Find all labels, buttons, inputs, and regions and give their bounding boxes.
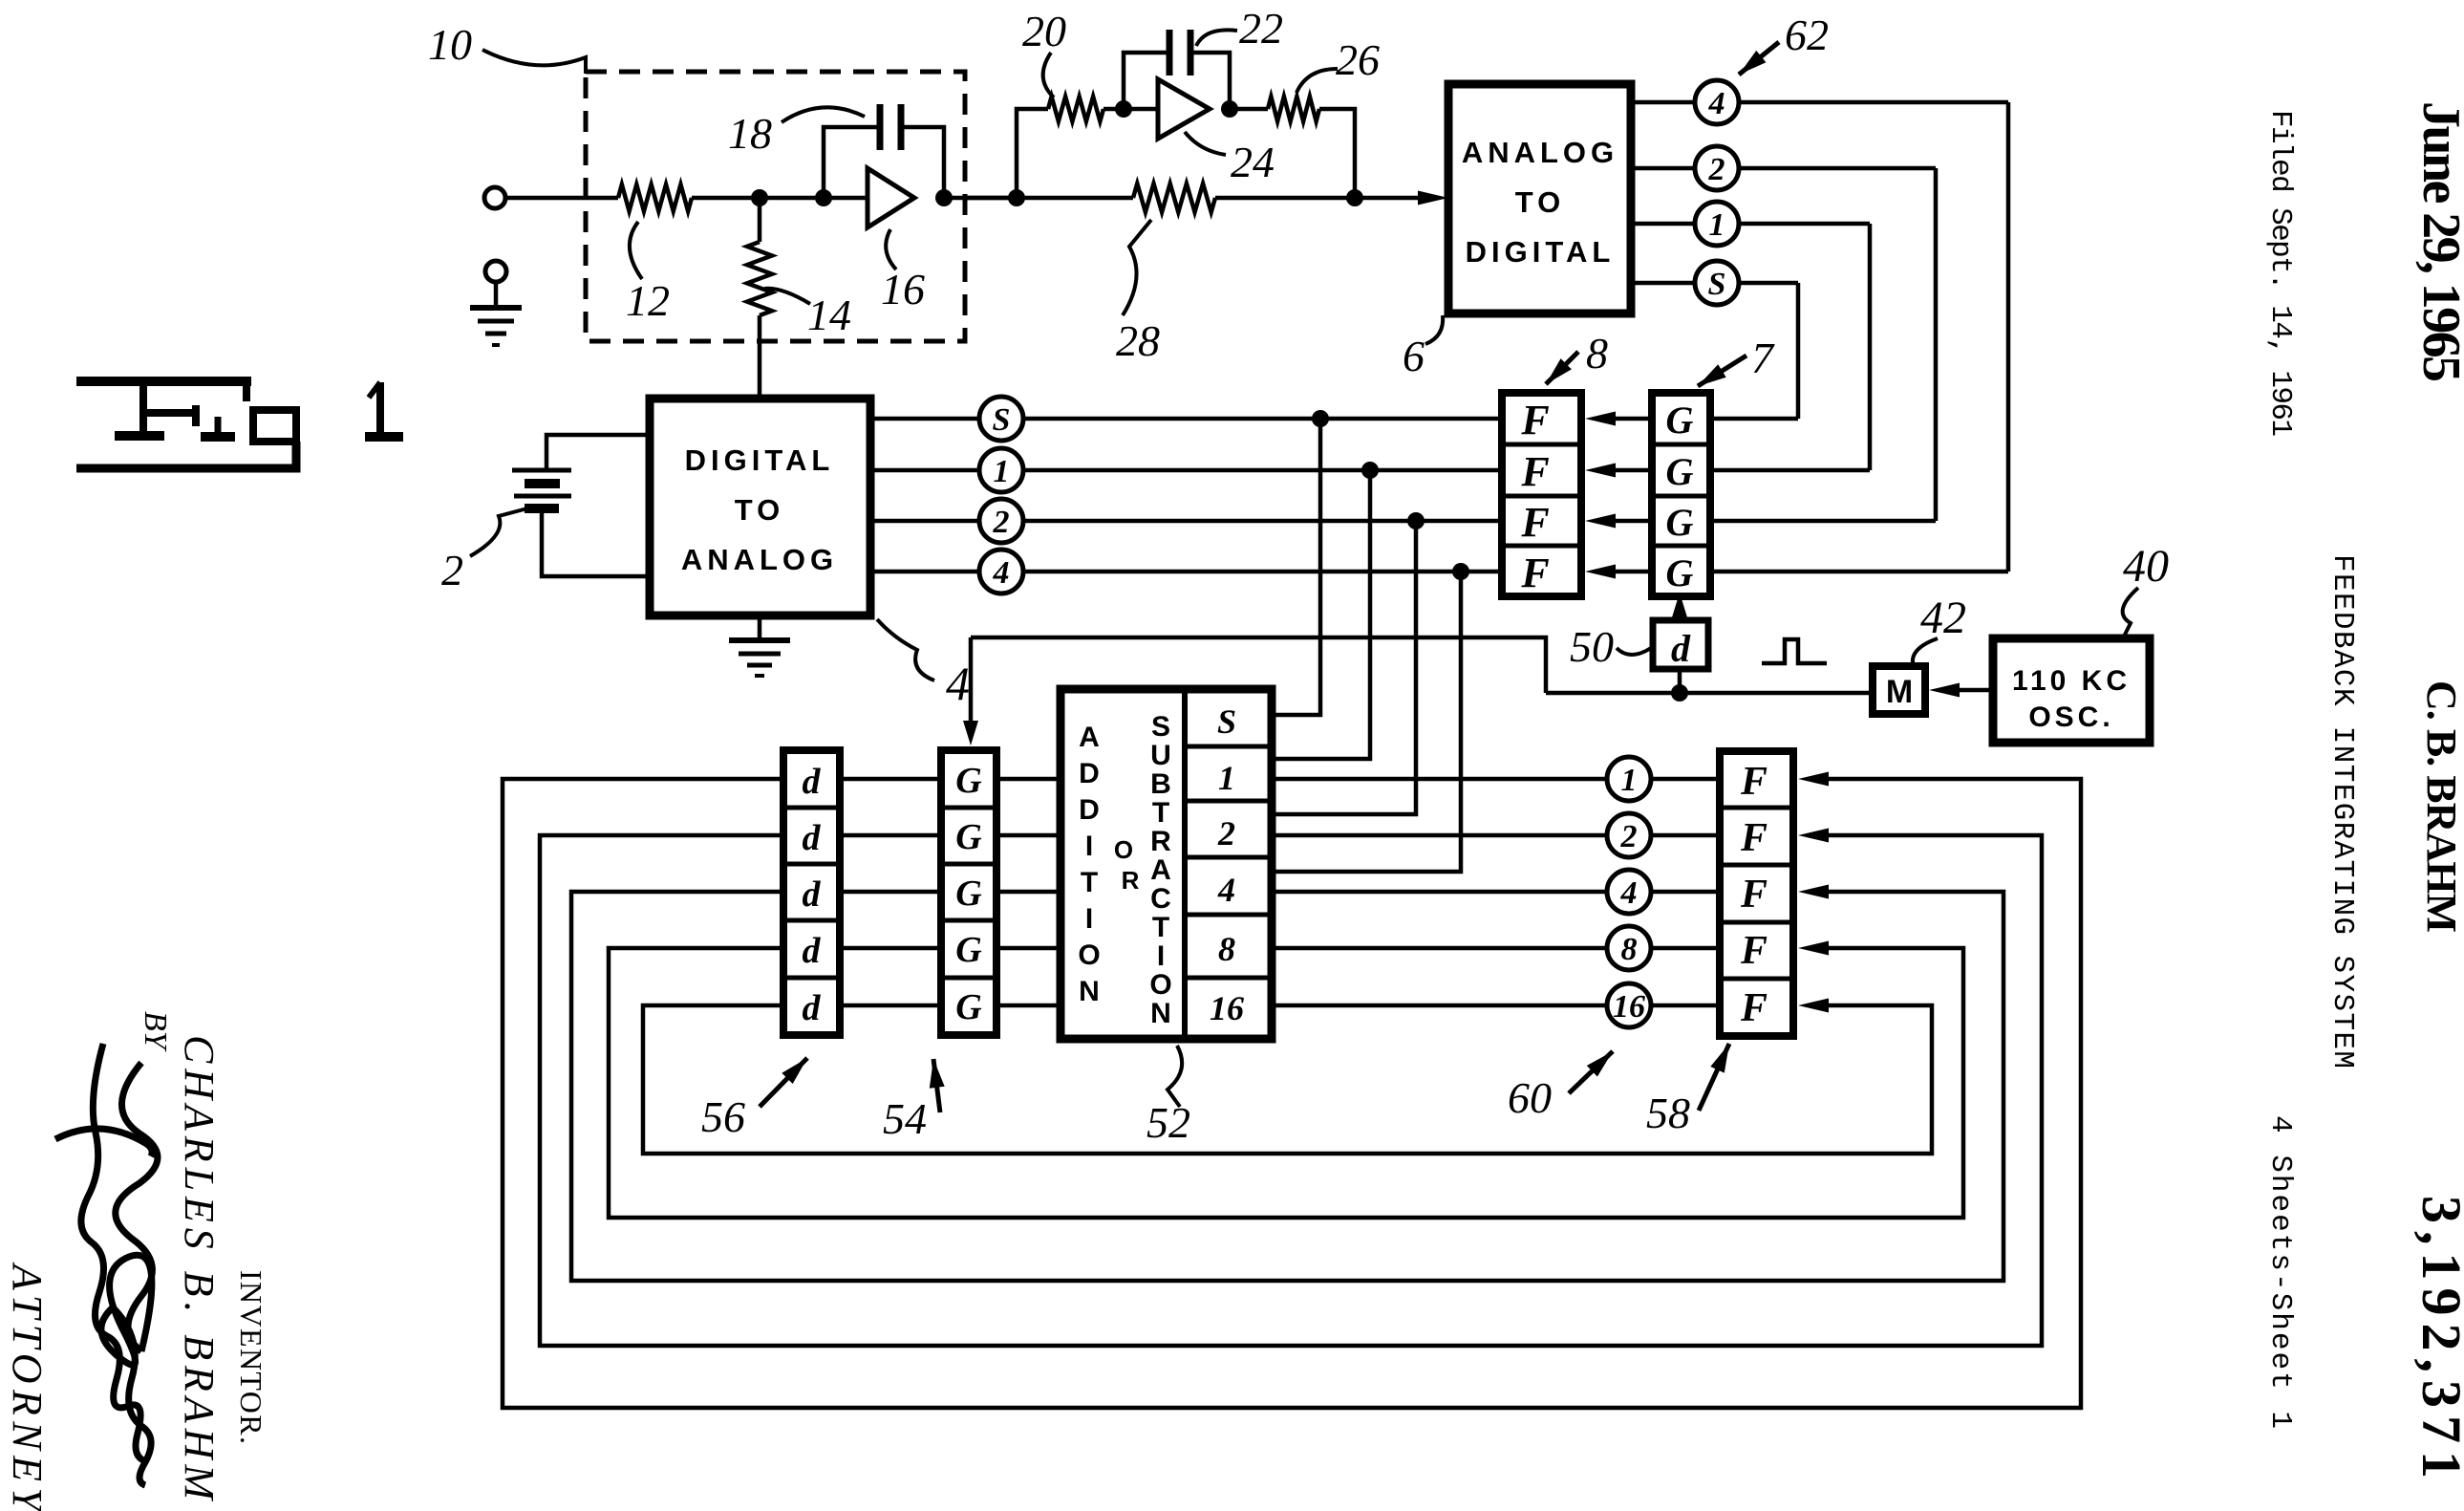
text G — [1666, 399, 1694, 442]
svg-text:ANALOG: ANALOG — [1462, 136, 1618, 169]
wire: vertical S to G column — [1796, 283, 1801, 419]
feedback loop 4 — [609, 941, 1963, 1219]
wire: ADC output 2 — [1631, 166, 1936, 171]
text d — [803, 931, 822, 971]
text F — [1740, 760, 1768, 804]
label 4 — [877, 619, 970, 710]
label 12 — [626, 222, 670, 325]
text F — [1520, 397, 1549, 443]
svg-text:R: R — [1150, 826, 1171, 857]
header filed — [2263, 110, 2297, 437]
text F — [1740, 986, 1768, 1030]
capacitor C22 feedback wire — [1124, 53, 1230, 109]
svg-text:28: 28 — [1116, 316, 1160, 365]
figure label Fig 1 — [76, 381, 403, 468]
text 110 KC OSC. — [2012, 665, 2131, 733]
label 24 — [1185, 132, 1275, 186]
text G — [955, 817, 982, 857]
svg-text:14: 14 — [807, 291, 851, 339]
svg-text:G: G — [955, 930, 982, 970]
label 2 — [441, 508, 527, 594]
text adder cell 1 — [1218, 759, 1235, 797]
svg-text:8: 8 — [1586, 329, 1608, 378]
block: 110 KC OSC (40) — [1993, 638, 2150, 743]
svg-text:2: 2 — [1708, 152, 1725, 187]
text T (SUBTRACTION) — [1152, 797, 1169, 829]
wire: loop to d — [840, 833, 941, 838]
label 42 — [1913, 593, 1966, 663]
label 8 with arrow — [1546, 329, 1608, 384]
wire: loop to d — [840, 946, 941, 951]
label 56 with arrow — [701, 1058, 807, 1141]
svg-text:20: 20 — [1022, 7, 1066, 55]
capacitor C18 — [880, 104, 901, 150]
resistor R20 — [1048, 97, 1103, 121]
wire: G54 to adder — [996, 1004, 1061, 1008]
label 22 — [1196, 4, 1283, 53]
text G — [1666, 551, 1694, 594]
header title — [2325, 554, 2359, 1068]
text C (SUBTRACTION) — [1150, 883, 1171, 915]
resistor R26 — [1268, 97, 1319, 121]
node circle 1 (60) — [1607, 757, 1651, 801]
wire: node D up to R20 — [1017, 109, 1048, 198]
junction dot row S — [1312, 410, 1329, 427]
svg-text:1: 1 — [1709, 207, 1725, 243]
wire: d50 to clock line — [1678, 669, 1682, 693]
flip-flop column 8 (F) — [1502, 393, 1581, 596]
wire: vertical to adder cell 1 — [1272, 470, 1370, 759]
wire: adder to F58 row 16 — [1272, 1004, 1720, 1008]
text R (SUBTRACTION) — [1150, 826, 1171, 857]
svg-text:62: 62 — [1785, 11, 1829, 59]
svg-text:4: 4 — [1217, 871, 1235, 909]
svg-text:2: 2 — [1217, 814, 1235, 853]
node D — [1008, 189, 1025, 206]
wire+arrow OSC to M — [1929, 683, 1993, 698]
svg-text:A: A — [1150, 854, 1171, 886]
label 60 with arrow — [1508, 1051, 1613, 1122]
resistor R12 — [618, 184, 692, 211]
junction dot row 4 — [1452, 563, 1469, 580]
svg-text:d: d — [803, 931, 822, 971]
svg-text:G: G — [1666, 399, 1694, 442]
wire: vertical 2 to G column — [1934, 168, 1939, 521]
label 26 — [1296, 35, 1380, 93]
svg-text:F: F — [1740, 816, 1768, 860]
wire: R20 to node E — [1103, 107, 1158, 112]
svg-text:F: F — [1740, 986, 1768, 1030]
text F — [1740, 816, 1768, 860]
text d — [803, 762, 822, 802]
header date — [2411, 101, 2464, 382]
svg-text:INVENTOR.: INVENTOR. — [234, 1270, 268, 1444]
svg-text:O: O — [1078, 939, 1100, 971]
svg-text:A: A — [1079, 722, 1100, 753]
wire: vertical 1 to G column — [1868, 224, 1873, 470]
wire: R28 to ADC — [1215, 196, 1438, 201]
svg-text:G: G — [955, 874, 982, 914]
svg-text:BY: BY — [138, 1011, 173, 1052]
svg-text:1: 1 — [1218, 759, 1235, 797]
label 6 — [1403, 315, 1443, 380]
svg-text:7: 7 — [1751, 334, 1775, 382]
text G — [955, 761, 982, 801]
feedback loop 3 — [571, 885, 2003, 1282]
node circle 2 (60) — [1607, 813, 1651, 857]
wire: DAC output S to F column — [870, 417, 1502, 421]
svg-text:d: d — [803, 988, 822, 1028]
arrow: d50 to G7 — [1672, 593, 1687, 620]
footer INVENTOR — [234, 1270, 268, 1444]
text O (ADDITION) — [1078, 939, 1100, 971]
wire: G column input row 2 — [1710, 468, 1870, 473]
svg-text:N: N — [1150, 998, 1171, 1029]
svg-text:42: 42 — [1920, 593, 1966, 643]
svg-text:2: 2 — [993, 505, 1010, 540]
svg-text:T: T — [1081, 867, 1098, 898]
text A (ADDITION) — [1079, 722, 1100, 753]
svg-text:d: d — [1671, 627, 1691, 670]
wire: adder to F58 row 1 — [1272, 777, 1720, 782]
svg-text:F: F — [1520, 550, 1549, 596]
svg-text:T: T — [1152, 912, 1169, 943]
node E — [1115, 100, 1132, 118]
wire+arrow G to F row 1 — [1585, 412, 1652, 426]
text F — [1520, 550, 1549, 596]
text I (ADDITION) — [1085, 903, 1093, 935]
dashed box 10 — [586, 72, 965, 341]
svg-text:B: B — [1150, 768, 1171, 800]
label 62 with arrow — [1739, 11, 1829, 75]
text adder cell 2 — [1217, 814, 1235, 853]
header sheet — [2263, 1115, 2297, 1429]
battery 2 — [512, 470, 571, 508]
svg-text:D: D — [1079, 758, 1100, 789]
svg-text:4: 4 — [1620, 875, 1638, 911]
svg-text:G: G — [1666, 450, 1694, 493]
wire: DAC output 4 to F column — [870, 570, 1502, 574]
wire: R14 to DAC — [758, 315, 762, 399]
text T (ADDITION) — [1081, 867, 1098, 898]
capacitor C22 — [1169, 30, 1190, 76]
text G — [1666, 501, 1694, 544]
feedback loop 2 — [540, 829, 2042, 1347]
svg-text:O: O — [1114, 835, 1133, 864]
svg-text:F: F — [1740, 760, 1768, 804]
svg-text:40: 40 — [2123, 541, 2169, 592]
svg-text:DIGITAL: DIGITAL — [1466, 235, 1616, 269]
clock node — [1671, 684, 1688, 702]
svg-text:24: 24 — [1231, 138, 1275, 186]
block: ANALOG TO DIGITAL (6) — [1448, 84, 1631, 313]
svg-text:June 29, 1965: June 29, 1965 — [2411, 101, 2464, 382]
wire+arrow G to F row 3 — [1585, 514, 1652, 529]
svg-text:22: 22 — [1239, 4, 1283, 53]
svg-text:d: d — [803, 874, 822, 915]
text T (SUBTRACTION) — [1152, 912, 1169, 943]
wire: vertical to adder cell 4 — [1272, 572, 1461, 872]
svg-text:4: 4 — [1708, 86, 1725, 121]
arrow: clock to G54 — [963, 637, 978, 745]
svg-text:18: 18 — [728, 109, 772, 158]
wire: G column input row 4 — [1710, 570, 2008, 574]
svg-text:ANALOG: ANALOG — [681, 543, 838, 576]
wire: loop to d — [840, 777, 941, 782]
text D (ADDITION) — [1079, 794, 1100, 826]
header inventor name — [2418, 680, 2464, 933]
text B (SUBTRACTION) — [1150, 768, 1171, 800]
wire: G54 to adder — [996, 833, 1061, 838]
svg-text:C: C — [1150, 883, 1171, 915]
ground terminal — [485, 261, 506, 282]
flip-flop column 58 (F) — [1720, 751, 1793, 1036]
text adder cell 16 — [1210, 989, 1244, 1027]
wire: R12 to node A — [692, 196, 868, 201]
svg-text:OSC.: OSC. — [2028, 702, 2113, 733]
label 52 — [1146, 1046, 1190, 1147]
svg-text:R: R — [1122, 866, 1140, 895]
label 54 with arrow — [883, 1059, 945, 1143]
label 10 — [428, 20, 586, 74]
text N (ADDITION) — [1079, 976, 1100, 1007]
header patent number — [2410, 1196, 2464, 1479]
wire: DAC output 1 to F column — [870, 468, 1502, 473]
svg-text:2: 2 — [441, 546, 463, 594]
input terminal — [484, 187, 505, 208]
wire+arrow G to F row 4 — [1585, 565, 1652, 579]
text F — [1740, 873, 1768, 917]
svg-text:56: 56 — [701, 1092, 745, 1141]
node circle 2 (DAC out) — [979, 499, 1023, 543]
svg-text:F: F — [1520, 448, 1549, 495]
svg-text:N: N — [1079, 976, 1100, 1007]
node circle S (62) — [1695, 261, 1739, 305]
node circle 8 (60) — [1607, 926, 1651, 970]
text S (SUBTRACTION) — [1151, 711, 1170, 743]
svg-text:S: S — [1217, 702, 1236, 741]
wire: adder to F58 row 8 — [1272, 946, 1720, 951]
text G — [955, 874, 982, 914]
svg-text:DIGITAL: DIGITAL — [685, 443, 835, 477]
figure number 1 — [0, 0, 1, 1]
svg-text:S: S — [1151, 711, 1170, 743]
wire: amp16 out to node D — [944, 196, 1017, 201]
node circle 16 (60) — [1607, 983, 1651, 1027]
footer inventor name — [176, 1035, 223, 1501]
wire: G54 to adder — [996, 946, 1061, 951]
svg-text:26: 26 — [1336, 35, 1380, 84]
wire: vertical to adder cell 2 — [1272, 521, 1416, 814]
svg-text:16: 16 — [1613, 989, 1645, 1025]
svg-text:8: 8 — [1218, 930, 1235, 968]
svg-text:T: T — [1152, 797, 1169, 829]
label 28 — [1116, 220, 1160, 365]
feedback loop 5 — [643, 999, 1932, 1155]
svg-text:d: d — [803, 818, 822, 858]
wire: ADC output 4 — [1631, 100, 2008, 105]
wire: adder to F58 row 4 — [1272, 890, 1720, 895]
wire: G54 to adder — [996, 777, 1061, 782]
svg-text:8: 8 — [1621, 932, 1638, 967]
svg-text:F: F — [1520, 499, 1549, 546]
gate column 54 (G) — [941, 750, 996, 1035]
clock line — [1546, 691, 1873, 696]
svg-text:TO: TO — [735, 493, 785, 527]
capacitor C18 feedback wire — [824, 127, 944, 198]
op-amp U24 — [1158, 79, 1210, 139]
node F (amp24 out) — [1221, 100, 1238, 118]
op-amp U16 — [868, 168, 914, 227]
wire: ADC output S — [1631, 281, 1798, 286]
text d — [803, 874, 822, 915]
svg-text:G: G — [1666, 501, 1694, 544]
wire: loop to d — [840, 890, 941, 895]
svg-text:D: D — [1079, 794, 1100, 826]
gate column 7 (G) — [1652, 393, 1710, 596]
ground (DAC) — [729, 615, 790, 676]
text G — [955, 930, 982, 970]
svg-text:G: G — [955, 817, 982, 857]
svg-text:F: F — [1740, 873, 1768, 917]
svg-text:16: 16 — [1210, 989, 1244, 1027]
node A (R14 tap) — [751, 189, 768, 206]
footer BY — [138, 1011, 173, 1052]
node G — [1346, 189, 1363, 206]
label 18 — [728, 107, 865, 158]
svg-text:U: U — [1150, 740, 1171, 771]
wire: vertical to adder cell S — [1272, 419, 1320, 715]
svg-text:TO: TO — [1515, 185, 1566, 219]
node C (amp out) — [935, 189, 953, 206]
text G — [1666, 450, 1694, 493]
node circle 4 (DAC out) — [979, 550, 1023, 594]
text adder cell 8 — [1218, 930, 1235, 968]
text d — [803, 818, 822, 858]
wire: loop to d — [840, 1004, 941, 1008]
svg-text:G: G — [955, 987, 982, 1027]
text A (SUBTRACTION) — [1150, 854, 1171, 886]
node circle 1 (DAC out) — [979, 448, 1023, 492]
block M (42) — [1873, 666, 1925, 714]
arrow into ADC — [1418, 191, 1448, 205]
text O (SUBTRACTION) — [1149, 969, 1171, 1001]
node circle S (DAC out) — [979, 397, 1023, 441]
wire: terminal to ground — [494, 282, 499, 308]
text F — [1740, 929, 1768, 973]
label 20 — [1022, 7, 1066, 97]
wire: vertical 4 to G column — [2006, 102, 2011, 572]
svg-text:60: 60 — [1508, 1073, 1552, 1122]
signature — [55, 1044, 158, 1485]
svg-text:10: 10 — [428, 20, 472, 69]
svg-text:G: G — [1666, 551, 1694, 594]
svg-text:1: 1 — [994, 454, 1010, 489]
label 50 — [1570, 622, 1651, 671]
pulse symbol — [1762, 639, 1827, 663]
label 40 — [2123, 541, 2169, 638]
wire: adder to F58 row 2 — [1272, 833, 1720, 838]
footer ATTORNEY — [4, 1262, 51, 1511]
svg-text:F: F — [1740, 929, 1768, 973]
node circle 4 (62) — [1695, 80, 1739, 124]
svg-text:4: 4 — [993, 555, 1010, 591]
svg-text:M: M — [1886, 674, 1913, 710]
svg-text:d: d — [803, 762, 822, 802]
wire: ADC output 1 — [1631, 222, 1870, 227]
text N (SUBTRACTION) — [1150, 998, 1171, 1029]
svg-text:C. B. BRAHM: C. B. BRAHM — [2418, 680, 2464, 933]
svg-text:I: I — [1157, 940, 1165, 972]
svg-text:G: G — [955, 761, 982, 801]
ground (input) — [470, 308, 522, 345]
label 14 — [764, 289, 851, 339]
delay column 56 (d) — [783, 750, 840, 1035]
wire: DAC output 2 to F column — [870, 519, 1502, 524]
text F — [1520, 448, 1549, 495]
svg-text:S: S — [993, 402, 1011, 438]
node B (cap18 tap) — [815, 189, 832, 206]
gate d (50) — [1653, 620, 1708, 670]
clock branch up-left — [971, 637, 1546, 693]
wire: G column input row 1 — [1710, 417, 1798, 421]
wire: G column input row 3 — [1710, 519, 1936, 524]
svg-text:2: 2 — [1620, 819, 1638, 854]
wire: R26 down to main — [1319, 109, 1355, 198]
junction dot row 1 — [1361, 462, 1379, 479]
svg-text:6: 6 — [1403, 332, 1425, 380]
svg-text:54: 54 — [883, 1094, 927, 1143]
svg-text:16: 16 — [881, 265, 925, 313]
svg-text:110 KC: 110 KC — [2012, 665, 2131, 697]
text DIGITAL TO ANALOG — [681, 443, 838, 576]
text G — [955, 987, 982, 1027]
svg-text:S: S — [1708, 267, 1726, 302]
text adder cell 4 — [1217, 871, 1235, 909]
svg-text:FEEDBACK INTEGRATING SYSTEM: FEEDBACK INTEGRATING SYSTEM — [2325, 554, 2359, 1068]
label 16 — [881, 229, 925, 313]
text OR — [1114, 835, 1140, 895]
block: ADDITION OR SUBTRACTION (52) — [1061, 689, 1272, 1039]
text d — [803, 988, 822, 1028]
svg-text:12: 12 — [626, 276, 670, 325]
text F — [1520, 499, 1549, 546]
text I (ADDITION) — [1085, 831, 1093, 862]
svg-text:3,192,371: 3,192,371 — [2410, 1196, 2464, 1479]
label 7 with arrow — [1698, 334, 1775, 386]
svg-text:F: F — [1520, 397, 1549, 443]
svg-text:I: I — [1085, 903, 1093, 935]
wire: node F to R26 — [1230, 107, 1268, 112]
feedback loop 1 — [503, 772, 2081, 1409]
text adder cell S — [1217, 702, 1236, 741]
svg-text:58: 58 — [1646, 1089, 1690, 1137]
wire: G54 to adder — [996, 890, 1061, 895]
svg-text:50: 50 — [1570, 622, 1614, 671]
resistor R14 (vertical) — [747, 198, 772, 315]
text U (SUBTRACTION) — [1150, 740, 1171, 771]
junction dot row 2 — [1407, 512, 1425, 529]
text I (SUBTRACTION) — [1157, 940, 1165, 972]
node circle 1 (62) — [1695, 202, 1739, 246]
node circle 4 (60) — [1607, 870, 1651, 914]
resistor R28 (main line) — [965, 183, 1215, 212]
text ANALOG TO DIGITAL — [1462, 136, 1618, 269]
svg-text:I: I — [1085, 831, 1093, 862]
svg-text:4: 4 — [946, 657, 970, 710]
wire+arrow G to F row 2 — [1585, 464, 1652, 478]
label 58 with arrow — [1646, 1044, 1729, 1137]
